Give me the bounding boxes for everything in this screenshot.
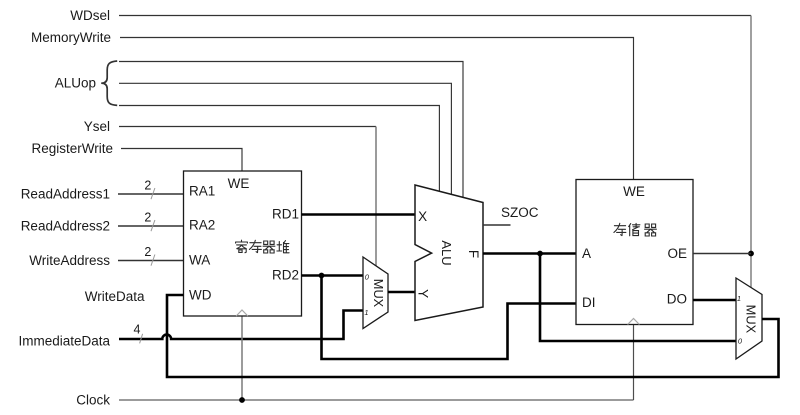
wire ReadAddress2 to RA2 [118,225,184,227]
svg-text:WE: WE [228,176,250,191]
svg-text:1: 1 [737,294,741,303]
wire RD2 branch to memory DI [322,276,577,360]
mux MUX1 [363,257,388,329]
svg-text:Clock: Clock [76,393,110,408]
svg-text:DO: DO [667,292,687,307]
wire Ysel vertical drop [375,127,377,266]
svg-text:RD2: RD2 [272,268,299,283]
wire MUX1 output to ALU Y [388,291,415,294]
bus width 2 slash WA [151,255,155,266]
wire ReadAddress1 to RA1 [118,193,184,195]
svg-text:2: 2 [144,179,151,193]
wire RD1 to ALU X [302,213,416,216]
svg-text:ALUop: ALUop [55,76,96,91]
wire Ysel to MUX1 select [119,126,376,128]
svg-text:RegisterWrite: RegisterWrite [31,141,113,156]
wire Clock riser to memory [633,325,635,401]
svg-text:2: 2 [144,245,151,259]
bus width 4 slash ImmediateData [140,334,143,344]
wire WriteAddress to WA [118,260,184,262]
svg-text:DI: DI [582,295,596,310]
bus width 2 slash RA2 [151,220,155,231]
wire WDsel horizontal [119,15,751,17]
svg-text:RA2: RA2 [189,218,215,233]
svg-text:WDsel: WDsel [70,8,110,23]
svg-text:1: 1 [364,308,368,317]
svg-text:A: A [582,246,591,261]
memory name 存储器 [614,223,657,236]
memory clock triangle [628,319,640,325]
wire RegisterWrite to regfile WE [121,149,242,172]
wire ALU F to memory A [483,252,576,255]
svg-text:WriteAddress: WriteAddress [29,253,110,268]
svg-text:MUX: MUX [371,279,386,308]
wire Clock drop to regfile [241,316,243,400]
svg-text:WriteData: WriteData [85,289,145,304]
svg-text:Y: Y [416,289,431,298]
svg-text:ReadAddress2: ReadAddress2 [21,219,110,234]
wire ALUop bit0 [119,106,439,192]
svg-text:2: 2 [144,211,151,225]
wire Clock horizontal [119,399,634,401]
brace ALUop [101,61,117,105]
svg-text:ALU: ALU [439,240,454,265]
junction F [537,251,543,257]
svg-text:RA1: RA1 [189,184,215,199]
svg-text:OE: OE [667,246,687,261]
svg-text:X: X [418,209,427,224]
svg-text:SZOC: SZOC [501,205,539,220]
wire ImmediateData to MUX1 input 1 with hop [119,311,363,340]
wire MemoryWrite to memory WE [120,38,634,180]
svg-text:MemoryWrite: MemoryWrite [31,30,111,45]
svg-text:ImmediateData: ImmediateData [18,334,110,349]
wire SZOC flags [483,224,511,226]
svg-text:MUX: MUX [744,305,759,334]
wire F branch to MUX2 input 0 [540,254,736,342]
register file name 寄存器堆 [236,240,290,253]
svg-text:4: 4 [134,322,141,336]
wire WDsel vertical drop to MUX2 select [750,16,752,288]
svg-text:Ysel: Ysel [84,119,110,134]
svg-text:ReadAddress1: ReadAddress1 [21,187,110,202]
mux MUX2 [736,278,762,359]
svg-text:RD1: RD1 [272,207,299,222]
junction RD2 [319,273,325,279]
wire ALUop bit2 [119,62,463,198]
wire memory OE to WDsel [693,253,751,255]
svg-text:WA: WA [189,253,210,268]
junction Clock/regfile [239,397,245,403]
wire MUX2 output WriteData loop to regfile WD [167,295,779,377]
register file U1 [184,171,302,316]
wire RD2 to MUX1 input 0 [302,274,364,277]
bus width 2 slash RA1 [151,188,155,199]
regfile clock triangle [236,310,248,316]
svg-text:F: F [466,250,481,258]
junction WDsel/OE [748,251,754,257]
memory U3 [576,180,693,325]
op-amp ALU U2 [415,185,483,321]
svg-text:WD: WD [189,288,212,303]
svg-text:WE: WE [623,184,645,199]
wire memory DO to MUX2 input 1 [693,299,736,302]
wire ALUop bit1 [119,83,451,194]
